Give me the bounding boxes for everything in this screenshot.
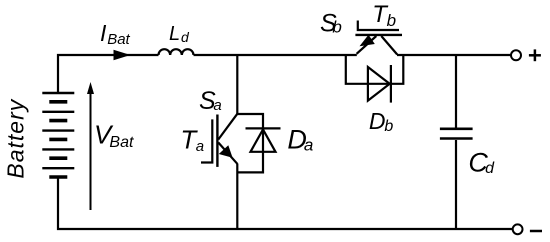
svg-text:b: b <box>387 11 396 30</box>
svg-text:d: d <box>181 29 190 45</box>
svg-text:D: D <box>369 108 386 134</box>
svg-text:Battery: Battery <box>2 98 28 178</box>
svg-text:b: b <box>332 17 341 36</box>
svg-text:a: a <box>304 136 313 155</box>
svg-text:Bat: Bat <box>109 134 134 151</box>
svg-text:a: a <box>196 138 204 155</box>
svg-text:a: a <box>213 97 221 114</box>
svg-text:Bat: Bat <box>107 31 130 48</box>
svg-text:b: b <box>384 118 393 135</box>
svg-text:L: L <box>169 23 180 45</box>
svg-text:d: d <box>485 160 495 177</box>
svg-text:I: I <box>100 20 107 46</box>
